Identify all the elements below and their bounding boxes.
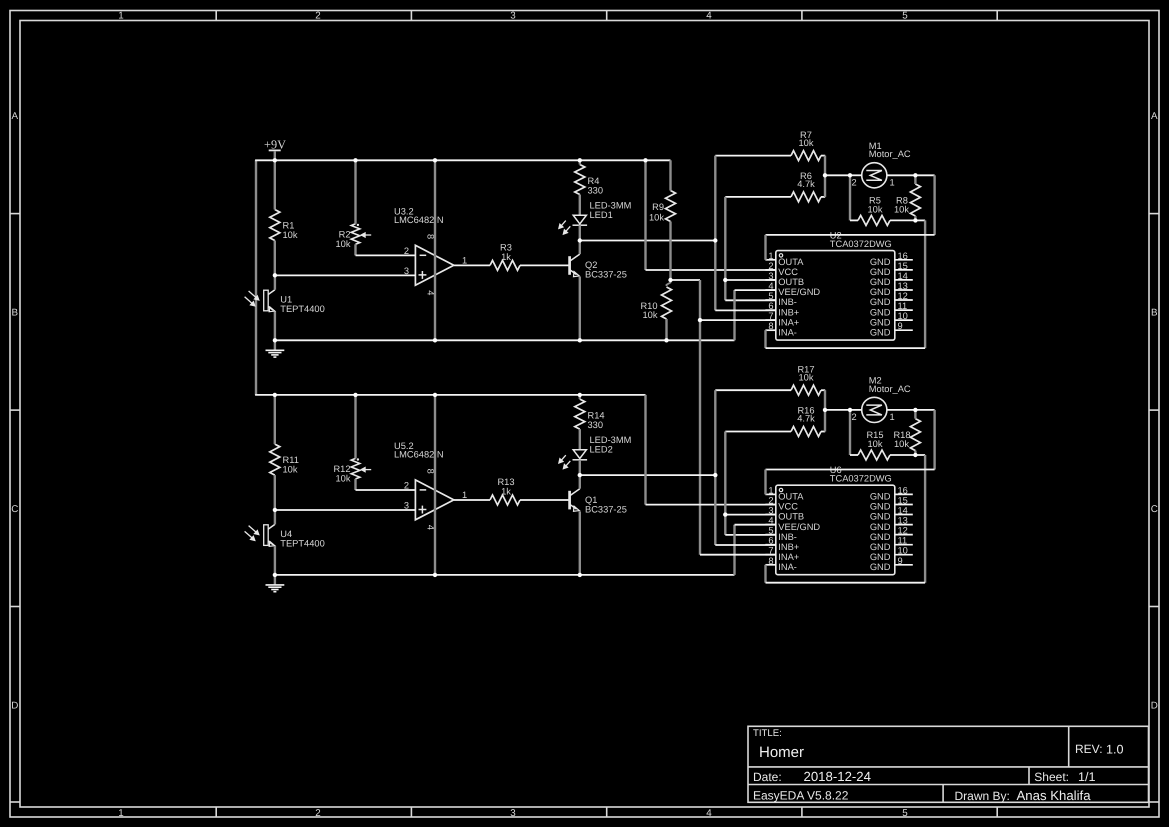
ground [266, 340, 285, 357]
wire [914, 175, 916, 184]
wire INA+ [700, 319, 776, 321]
wire [825, 409, 850, 411]
svg-text:GND: GND [870, 257, 891, 267]
wire [714, 156, 716, 241]
svg-text:13: 13 [898, 281, 908, 291]
svg-text:330: 330 [588, 186, 604, 196]
junction [578, 338, 582, 342]
wire [764, 330, 766, 348]
svg-text:Motor_AC: Motor_AC [869, 149, 911, 159]
svg-text:TCA0372DWG: TCA0372DWG [830, 473, 892, 483]
svg-text:INB+: INB+ [778, 542, 799, 552]
svg-text:R9: R9 [652, 202, 664, 212]
svg-text:330: 330 [588, 420, 604, 430]
svg-text:9: 9 [898, 321, 903, 331]
resistor R16 [791, 406, 821, 437]
svg-text:10k: 10k [643, 310, 658, 320]
svg-text:OUTB: OUTB [778, 277, 804, 287]
svg-text:TITLE:: TITLE: [753, 728, 782, 739]
svg-text:Q1: Q1 [585, 495, 597, 505]
svg-text:LED2: LED2 [590, 445, 613, 455]
svg-text:R4: R4 [588, 176, 600, 186]
svg-text:12: 12 [898, 526, 908, 536]
wire [579, 160, 581, 164]
svg-text:C: C [11, 504, 18, 515]
svg-text:A: A [1151, 111, 1158, 122]
junction [823, 408, 827, 412]
op-amp U3.2 LMC6482IN [394, 207, 467, 296]
svg-text:C: C [1151, 504, 1158, 515]
resistor R18 [893, 419, 920, 451]
svg-text:VEE/GND: VEE/GND [778, 287, 820, 297]
junction [273, 393, 277, 397]
wire [850, 454, 858, 456]
svg-text:8: 8 [768, 556, 773, 566]
wire [824, 175, 826, 197]
resistor R8 [894, 184, 920, 216]
svg-text:1k: 1k [501, 252, 511, 262]
svg-text:2: 2 [404, 480, 409, 490]
wire INA- [766, 347, 926, 349]
svg-text:5: 5 [902, 808, 908, 819]
wire op-amp output [454, 499, 490, 501]
wire [824, 156, 826, 176]
svg-text:4.7k: 4.7k [797, 414, 815, 424]
wire VCC [646, 504, 776, 506]
svg-text:10k: 10k [336, 239, 351, 249]
svg-text:3: 3 [510, 808, 516, 819]
svg-text:14: 14 [898, 271, 908, 281]
wire [764, 235, 766, 260]
junction [913, 408, 917, 412]
wire [354, 395, 356, 459]
junction [643, 158, 647, 162]
svg-text:VCC: VCC [778, 502, 798, 512]
svg-text:GND: GND [870, 267, 891, 277]
wire [669, 160, 671, 190]
svg-text:R13: R13 [497, 477, 514, 487]
wire [356, 254, 416, 256]
svg-text:BC337-25: BC337-25 [585, 504, 627, 514]
svg-text:1: 1 [890, 412, 895, 422]
svg-text:Q2: Q2 [585, 260, 597, 270]
svg-text:2018-12-24: 2018-12-24 [804, 769, 871, 784]
wire [255, 160, 257, 395]
svg-text:2: 2 [852, 412, 857, 422]
wire [274, 160, 276, 209]
wire [579, 511, 581, 575]
svg-text:1: 1 [118, 808, 123, 819]
svg-text:1: 1 [462, 490, 467, 500]
wire [933, 175, 935, 235]
svg-text:Date:: Date: [753, 770, 782, 784]
junction [578, 238, 582, 242]
svg-text:GND: GND [870, 562, 891, 572]
wire [579, 277, 581, 341]
svg-text:15: 15 [898, 261, 908, 271]
svg-text:5: 5 [902, 11, 908, 22]
wire ground rail [275, 574, 735, 576]
svg-text:GND: GND [870, 532, 891, 542]
potentiometer R12 [333, 458, 371, 483]
svg-text:16: 16 [898, 485, 908, 495]
svg-text:1.0: 1.0 [1106, 743, 1124, 757]
wire [579, 460, 581, 475]
svg-text:GND: GND [870, 552, 891, 562]
svg-text:INA-: INA- [778, 327, 797, 337]
junction [433, 338, 437, 342]
wire [914, 451, 916, 455]
wire [764, 470, 766, 495]
wire [671, 279, 701, 281]
wire [274, 312, 276, 341]
resistor R14 [575, 399, 605, 430]
junction [433, 393, 437, 397]
wire OUTA [766, 469, 935, 471]
svg-text:LED1: LED1 [590, 210, 613, 220]
wire [714, 475, 716, 545]
wire [915, 219, 925, 221]
wire link to U6 INA+ [699, 320, 701, 555]
junction [273, 158, 277, 162]
svg-text:12: 12 [898, 291, 908, 301]
wire [733, 525, 735, 575]
wire [850, 174, 862, 176]
transistor Q1 BC337-25 [570, 489, 627, 515]
svg-text:D: D [11, 701, 18, 712]
wire [274, 275, 276, 290]
wire [354, 244, 356, 255]
wire [520, 264, 570, 266]
svg-text:U1: U1 [280, 294, 292, 304]
resistor R9 [649, 191, 676, 223]
svg-text:TEPT4400: TEPT4400 [280, 304, 324, 314]
wire [849, 410, 851, 455]
svg-text:4.7k: 4.7k [797, 179, 815, 189]
wire [850, 219, 858, 221]
svg-text:10k: 10k [649, 213, 664, 223]
svg-text:R1: R1 [283, 221, 295, 231]
wire VCC [646, 269, 776, 271]
resistor R7 [791, 130, 821, 161]
wire [915, 409, 934, 411]
resistor R4 [575, 165, 603, 196]
junction [578, 473, 582, 477]
junction [664, 338, 668, 342]
phototransistor U1 TEPT4400 [245, 290, 325, 314]
wire [274, 151, 276, 160]
wire [579, 475, 581, 489]
wire [850, 409, 862, 411]
svg-text:1k: 1k [501, 487, 511, 497]
junction [433, 573, 437, 577]
svg-text:U4: U4 [280, 529, 292, 539]
transistor Q2 BC337-25 [570, 254, 627, 280]
junction [433, 158, 437, 162]
svg-text:OUTA: OUTA [778, 257, 804, 267]
wire [715, 389, 791, 391]
svg-text:15: 15 [898, 496, 908, 506]
svg-text:R3: R3 [500, 243, 512, 253]
wire [821, 196, 825, 198]
junction [353, 158, 357, 162]
wire [914, 410, 916, 419]
svg-text:TCA0372DWG: TCA0372DWG [830, 239, 892, 249]
svg-text:BC337-25: BC337-25 [585, 270, 627, 280]
junction [578, 158, 582, 162]
resistor R11 [270, 444, 299, 475]
wire [274, 475, 276, 510]
junction [848, 408, 852, 412]
svg-text:1: 1 [118, 11, 123, 22]
resistor R10 [640, 287, 671, 320]
wire [821, 155, 825, 157]
wire [520, 499, 570, 501]
resistor R3 [490, 243, 520, 271]
svg-text:+9V: +9V [264, 138, 286, 152]
svg-text:13: 13 [898, 516, 908, 526]
svg-text:10k: 10k [894, 205, 909, 215]
svg-text:INA-: INA- [778, 562, 797, 572]
svg-text:VEE/GND: VEE/GND [778, 522, 820, 532]
svg-text:1: 1 [768, 251, 773, 261]
svg-text:B: B [1151, 308, 1158, 319]
wire [824, 390, 826, 410]
svg-text:Homer: Homer [759, 744, 804, 761]
junction [578, 573, 582, 577]
svg-text:INB-: INB- [778, 532, 797, 542]
svg-text:GND: GND [870, 512, 891, 522]
phototransistor U4 TEPT4400 [245, 524, 325, 548]
wire [579, 429, 581, 450]
svg-text:GND: GND [870, 502, 891, 512]
wire [724, 197, 726, 280]
svg-text:B: B [12, 308, 19, 319]
svg-text:VCC: VCC [778, 267, 798, 277]
svg-text:GND: GND [870, 317, 891, 327]
svg-text:D: D [1151, 701, 1158, 712]
wire [825, 174, 850, 176]
svg-text:1: 1 [890, 177, 895, 187]
junction [723, 512, 727, 516]
svg-text:GND: GND [870, 522, 891, 532]
wire op-amp supply [434, 160, 436, 340]
svg-text:INA+: INA+ [778, 552, 799, 562]
wire [849, 175, 851, 220]
svg-text:R12: R12 [333, 464, 350, 474]
svg-text:3: 3 [510, 11, 516, 22]
svg-text:10k: 10k [283, 465, 298, 475]
svg-text:8: 8 [768, 321, 773, 331]
junction [273, 508, 277, 512]
wire [915, 174, 934, 176]
wire [699, 280, 701, 320]
svg-text:LED-3MM: LED-3MM [590, 435, 632, 445]
junction [913, 173, 917, 177]
op-amp U5.2 LMC6482IN [394, 441, 467, 530]
wire +9V rail [255, 394, 645, 396]
svg-text:REV:: REV: [1075, 742, 1103, 756]
motor M1 Motor_AC [852, 141, 911, 188]
svg-text:GND: GND [870, 277, 891, 287]
svg-text:10k: 10k [336, 474, 351, 484]
title block [748, 726, 1149, 802]
junction [913, 218, 917, 222]
wire [714, 390, 716, 475]
wire OUTA [766, 234, 935, 236]
svg-text:2: 2 [404, 246, 409, 256]
svg-text:OUTB: OUTB [778, 512, 804, 522]
wire INB+ [715, 544, 776, 546]
wire [933, 410, 935, 470]
svg-text:10k: 10k [799, 373, 814, 383]
wire INB- [725, 534, 776, 536]
svg-text:GND: GND [870, 297, 891, 307]
svg-text:4: 4 [706, 11, 712, 22]
wire op-amp output [454, 264, 490, 266]
resistor R13 [490, 477, 520, 505]
wire [733, 290, 735, 340]
svg-text:TEPT4400: TEPT4400 [280, 538, 324, 548]
wire [274, 546, 276, 575]
wire INA+ [700, 554, 776, 556]
wire [579, 395, 581, 399]
wire [821, 431, 825, 433]
resistor R5 [858, 196, 890, 226]
wire [914, 216, 916, 220]
svg-text:16: 16 [898, 251, 908, 261]
LED LED2 LED-3MM [559, 435, 632, 469]
potentiometer R2 [336, 224, 372, 249]
wire [665, 319, 667, 340]
junction [668, 278, 672, 282]
wire [579, 195, 581, 216]
svg-text:OUTA: OUTA [778, 492, 804, 502]
wire [725, 196, 791, 198]
wire [890, 454, 915, 456]
wire [580, 240, 716, 242]
wire [644, 395, 646, 505]
wire [824, 410, 826, 432]
wire OUTB [725, 514, 776, 516]
junction [273, 273, 277, 277]
junction [848, 173, 852, 177]
svg-text:2: 2 [315, 808, 320, 819]
wire [580, 474, 716, 476]
wire [354, 160, 356, 224]
op-amp IC U6 TCA0372DWG [765, 465, 912, 575]
wire [669, 222, 671, 281]
svg-text:Anas Khalifa: Anas Khalifa [1017, 788, 1092, 803]
wire [644, 160, 646, 270]
svg-text:R11: R11 [283, 455, 299, 465]
svg-text:9: 9 [898, 556, 903, 566]
resistor R17 [791, 365, 821, 396]
junction [723, 278, 727, 282]
resistor R15 [858, 430, 890, 460]
svg-text:Sheet:: Sheet: [1034, 770, 1069, 784]
wire [274, 241, 276, 276]
wire INB+ [715, 309, 776, 311]
wire [724, 515, 726, 535]
svg-text:A: A [12, 111, 19, 122]
junction [913, 453, 917, 457]
svg-text:Drawn By:: Drawn By: [955, 789, 1010, 803]
svg-text:GND: GND [870, 307, 891, 317]
wire +9V rail [255, 159, 670, 161]
svg-text:2: 2 [315, 11, 320, 22]
wire [821, 389, 825, 391]
junction [353, 393, 357, 397]
wire [887, 409, 916, 411]
wire [715, 155, 791, 157]
wire [274, 575, 276, 585]
resistor R6 [791, 171, 821, 202]
wire [915, 454, 925, 456]
svg-text:EasyEDA V5.8.22: EasyEDA V5.8.22 [753, 789, 849, 803]
junction [273, 338, 277, 342]
svg-text:11: 11 [898, 301, 908, 311]
wire [714, 241, 716, 311]
resistor R1 [270, 210, 298, 241]
svg-text:10: 10 [898, 311, 908, 321]
svg-text:4: 4 [706, 808, 712, 819]
wire [579, 225, 581, 240]
svg-text:11: 11 [898, 536, 908, 546]
svg-text:14: 14 [898, 506, 908, 516]
wire op-amp supply [434, 395, 436, 575]
svg-text:10: 10 [898, 546, 908, 556]
wire [764, 565, 766, 583]
svg-text:10k: 10k [283, 230, 298, 240]
wire [274, 395, 276, 444]
svg-text:R2: R2 [339, 230, 351, 240]
wire VEE/GND [735, 524, 776, 526]
ground [266, 575, 285, 592]
wire to + input [275, 274, 416, 276]
wire [274, 510, 276, 525]
wire [924, 220, 926, 348]
svg-text:INB-: INB- [778, 297, 797, 307]
junction [273, 573, 277, 577]
svg-text:10k: 10k [868, 439, 883, 449]
svg-text:10k: 10k [799, 138, 814, 148]
svg-text:Motor_AC: Motor_AC [869, 384, 911, 394]
wire ground rail [275, 339, 735, 341]
svg-text:GND: GND [870, 327, 891, 337]
wire [274, 340, 276, 350]
wire [724, 432, 726, 515]
svg-text:GND: GND [870, 492, 891, 502]
svg-text:1: 1 [768, 485, 773, 495]
junction [698, 318, 702, 322]
wire [354, 479, 356, 490]
svg-text:LED-3MM: LED-3MM [590, 201, 632, 211]
wire [579, 241, 581, 255]
svg-text:2: 2 [852, 177, 857, 187]
junction [713, 473, 717, 477]
wire [356, 489, 416, 491]
junction [713, 238, 717, 242]
svg-text:1: 1 [462, 255, 467, 265]
LED LED1 LED-3MM [559, 201, 632, 235]
motor M2 Motor_AC [852, 375, 911, 422]
svg-text:R14: R14 [588, 411, 605, 421]
svg-text:GND: GND [870, 287, 891, 297]
svg-text:INA+: INA+ [778, 317, 799, 327]
wire VEE/GND [735, 289, 776, 291]
svg-text:INB+: INB+ [778, 307, 799, 317]
